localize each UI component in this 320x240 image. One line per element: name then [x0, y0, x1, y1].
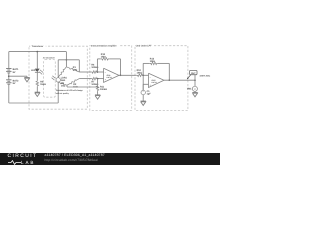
svg-text:LM741: LM741: [107, 76, 112, 79]
node bridge top tap: [66, 59, 68, 61]
label LED1: [31, 69, 38, 72]
svg-text:with air quality: with air quality: [56, 92, 70, 95]
ground mid supply: [24, 76, 29, 82]
svg-text:10kΩ: 10kΩ: [137, 72, 143, 75]
ground C1: [141, 100, 146, 106]
instrumentation amplifier section box: [90, 46, 132, 111]
svg-text:BAT2: BAT2: [13, 80, 20, 83]
low pass filter section label: [136, 43, 154, 47]
svg-text:1MΩ: 1MΩ: [101, 56, 106, 59]
svg-text:LED1: LED1: [31, 69, 38, 72]
resistor R12: [137, 74, 143, 77]
svg-text:LM741: LM741: [152, 81, 157, 84]
node bottom link: [97, 86, 99, 88]
label R12: [137, 69, 143, 75]
label 4-BIT ADC: [200, 74, 211, 77]
wire LED to R5: [36, 72, 38, 80]
footer credit text: [45, 154, 105, 162]
schematic canvas: [0, 0, 220, 165]
node feedback tap: [97, 71, 99, 73]
wire bridge upper link: [58, 59, 79, 61]
air chamber label: [43, 56, 55, 59]
wire lower output: [79, 78, 91, 80]
wire to mid ground: [9, 75, 27, 77]
wire flag to voltmeter: [194, 75, 196, 87]
svg-text:R7: R7: [91, 80, 95, 83]
wire cap drop: [142, 75, 144, 90]
wire VM1 to ground: [194, 90, 196, 93]
net flag OUT: [187, 70, 197, 79]
wire into LPF: [135, 74, 138, 76]
svg-text:1kΩ: 1kΩ: [61, 79, 66, 82]
svg-text:−: −: [105, 71, 107, 74]
battery BAT1: [6, 68, 11, 73]
wire OA1 output: [119, 74, 136, 76]
capacitor C1: [141, 90, 145, 95]
svg-text:Resistance of LDR will change: Resistance of LDR will change: [56, 89, 84, 92]
wire feedback right leg: [109, 59, 120, 75]
node LED branch: [36, 51, 38, 53]
wire R6 to opamp minus: [97, 71, 104, 73]
wire R12 to OA2 minus: [143, 74, 148, 76]
label R2: [73, 83, 78, 89]
wire OA2 plus leg: [143, 84, 148, 90]
label R13: [150, 57, 155, 63]
wire top rail: [9, 51, 67, 53]
low pass filter section box: [135, 46, 188, 111]
node LPF input tap: [142, 74, 144, 76]
ground LED branch: [35, 91, 40, 97]
svg-text:−: −: [150, 76, 152, 79]
node plus input tap: [97, 78, 99, 80]
resistor R10: [101, 58, 110, 61]
svg-text:9V: 9V: [13, 71, 16, 74]
LED emission arrows: [39, 70, 43, 75]
svg-text:V: V: [194, 88, 196, 91]
CircuitLab logo: [8, 155, 38, 166]
resistor R1 bridge upper-right arm: [66, 67, 79, 72]
svg-text:100kΩ: 100kΩ: [100, 88, 107, 91]
wire C1 to ground: [142, 95, 144, 100]
wire R11 to ground: [97, 91, 99, 93]
wire R5 to ground: [36, 87, 38, 91]
svg-text:R6: R6: [91, 64, 95, 67]
voltmeter VM1: [192, 86, 197, 91]
svg-text:1kΩ: 1kΩ: [73, 68, 78, 71]
svg-text:1MΩ: 1MΩ: [150, 60, 155, 63]
svg-text:2nd Order LPF: 2nd Order LPF: [136, 45, 152, 48]
wire left rail top: [8, 52, 10, 68]
node feedback to output: [120, 74, 122, 76]
svg-text:Instrumentation Amplifier: Instrumentation Amplifier: [91, 44, 117, 47]
svg-text:4-BIT ADC: 4-BIT ADC: [200, 74, 211, 77]
label BAT2: [13, 80, 20, 86]
wire LDR to bottom rail: [57, 82, 59, 103]
label R11: [100, 85, 107, 91]
battery BAT2: [6, 79, 11, 84]
wire bridge top drop: [65, 52, 67, 67]
resistor R11: [96, 85, 99, 91]
svg-text:Transducer: Transducer: [32, 45, 44, 48]
node output tee: [194, 79, 196, 81]
wire feedback left leg: [97, 59, 100, 72]
ground IA: [95, 94, 100, 100]
node LPF feedback to output: [168, 79, 170, 81]
label R6: [91, 64, 98, 70]
wire LED drop: [36, 52, 38, 69]
transducer section box: [29, 46, 87, 109]
transducer section label: [30, 44, 46, 48]
LDR LDR1: [56, 66, 60, 82]
svg-text:1kΩ: 1kΩ: [61, 85, 66, 88]
instrumentation amplifier section label: [91, 43, 120, 47]
bridge lower-left arm: [58, 82, 67, 85]
svg-text:9V: 9V: [13, 82, 16, 85]
label BAT1: [13, 68, 20, 74]
wire left rail bottom: [8, 85, 10, 103]
label LDR1: [61, 76, 68, 82]
wire LPF feedback right leg: [158, 63, 170, 80]
resistor R13: [150, 62, 158, 65]
resistor R5: [36, 80, 39, 86]
light arrows to LDR: [52, 76, 56, 80]
wire upper output: [79, 71, 91, 73]
ground VM1: [192, 92, 197, 97]
wire bridge bottom out: [67, 85, 98, 87]
resistor R6: [91, 71, 97, 74]
label R3: [61, 82, 66, 88]
label R1: [73, 66, 78, 72]
resistor R2 bridge lower-right arm: [67, 79, 79, 86]
air chamber box: [44, 60, 56, 98]
resistor R3 bridge upper-left arm: [58, 67, 66, 77]
label VM1: [187, 88, 192, 91]
wire plus to R11: [97, 79, 99, 85]
op-amp OA1: [104, 68, 119, 82]
label R7: [91, 80, 98, 86]
label C1: [147, 90, 152, 96]
svg-text:Air Chamber: Air Chamber: [43, 56, 55, 59]
svg-text:150Ω: 150Ω: [40, 83, 46, 86]
svg-text:BAT1: BAT1: [13, 68, 20, 71]
wire OA2 output: [164, 79, 195, 81]
wire link right drop: [78, 60, 80, 72]
svg-text:1µF: 1µF: [147, 93, 152, 96]
op-amp OA2: [149, 73, 165, 87]
label R5: [40, 81, 46, 87]
wire bottom rail: [9, 102, 58, 104]
resistor R7: [91, 77, 97, 80]
wire between batteries: [8, 73, 10, 79]
wire link left drop: [57, 60, 59, 66]
svg-text:VM1: VM1: [187, 88, 192, 91]
svg-text:OUT: OUT: [191, 72, 196, 75]
node battery midpoint: [8, 75, 10, 77]
label R10: [101, 53, 106, 59]
footer bar: [0, 153, 220, 165]
note text: [56, 89, 84, 95]
wire R7 to opamp plus: [97, 78, 104, 80]
wire LPF feedback left leg: [143, 63, 150, 75]
LED LED1: [35, 69, 40, 73]
